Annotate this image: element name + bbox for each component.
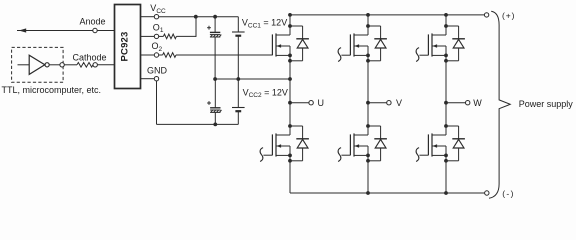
wire C2 column [214,79,216,108]
wire O1 to resistor [159,35,164,37]
junction dots Q2 [288,124,292,128]
wire B2 column [237,79,239,108]
svg-text:Cathode: Cathode [73,52,107,62]
wire gate drive to Q1 [176,54,272,56]
svg-text:PC923: PC923 [120,31,131,61]
node U terminal [309,101,313,105]
transistor Q6 [428,133,432,156]
junction column 2 bottom rail [366,191,370,195]
svg-text:Power supply: Power supply [519,99,574,109]
dashed box TTL driver [12,47,64,82]
junction VCC2-Q1 source [288,77,292,81]
diode D6 [446,126,465,161]
transistor Q1 [272,33,276,56]
junction column 3 bottom rail [444,191,448,195]
wire anode terminal to PC923 [97,30,114,32]
node cathode drive terminal [60,63,64,67]
battery VCC1 source [232,31,245,33]
svg-text:(+): (+) [502,10,515,20]
wire negative rail [290,192,485,194]
junction column 2 top rail [366,13,370,17]
node GND pin terminal [154,77,158,81]
node gate squiggle Q6 [416,148,419,162]
node gate squiggle Q4 [338,148,341,162]
inverter gate U2 [29,55,45,74]
wire bridge column 3 segments [445,15,447,35]
wire B1 column [237,17,239,32]
svg-text:V: V [396,98,402,108]
junction VCC-O1 [194,15,198,19]
junction column 1 top rail [288,13,292,17]
node anode terminal [93,28,97,32]
junction dots Q1 [288,24,292,28]
pin GND wire [141,78,155,80]
junction VCC-C1 [213,15,217,19]
node negative terminal [485,191,489,195]
wire VCC2 rail [215,78,290,80]
wire node W [446,102,466,104]
battery VCC2 source [232,107,245,109]
node positive terminal [484,13,488,17]
wire bridge column 2 segments [367,15,369,35]
pin O2 wire [141,54,155,56]
wire gate lead Q6 [419,154,428,156]
wire O2 to resistor [159,54,163,56]
svg-text:U: U [318,98,325,108]
wire cathode terminal to PC923 [97,64,114,66]
junction dots Q5 [444,24,448,28]
node VCC pin terminal [154,15,158,19]
wire to cathode resistor [64,64,77,66]
node gate squiggle Q5 [416,48,419,62]
wire input to inverter [18,64,30,66]
junction GND-C2 [213,123,217,127]
power supply brace [489,11,510,198]
node O2 pin terminal [154,53,158,57]
node gate squiggle Q3 [338,48,341,62]
node W terminal [466,101,470,105]
wire O1 resistor to VCC rail [176,35,196,37]
wire GND rail [157,123,239,125]
junction node V [366,101,370,105]
svg-text:W: W [473,98,482,108]
node V terminal [387,101,391,105]
node O1 pin terminal [154,34,158,38]
wire node V [368,102,387,104]
op-amp U1 PC923 photocoupler box [115,5,141,89]
transistor Q5 [428,33,432,56]
pin O1 wire [141,35,155,37]
junction column 3 top rail [444,13,448,17]
diode D4 [368,126,387,161]
junction dots Q3 [366,24,370,28]
wire VCC rail [159,16,239,18]
wire gate lead Q4 [341,154,350,156]
svg-text:GND: GND [147,66,168,76]
resistor R1 cathode series [77,63,93,68]
anode input wire with arrowhead [17,30,93,32]
wire bridge column 1 segments [289,15,291,35]
diode D3 [368,26,387,61]
capacitor C2 electrolytic [210,107,220,109]
node gate squiggle Q2 [260,148,263,162]
wire node U [290,102,309,104]
junction dots Q4 [366,124,370,128]
diode D2 [290,126,309,161]
wire gate lead Q5 [419,54,428,56]
junction node W [444,101,448,105]
diode D5 [446,26,465,61]
junction VCC2-B1 [236,77,240,81]
wire gate lead Q3 [341,54,350,56]
svg-text:TTL, microcomputer, etc.: TTL, microcomputer, etc. [2,85,102,95]
resistor R2 on O1 [163,34,176,39]
capacitor C1 electrolytic [210,31,220,33]
svg-text:(-): (-) [502,189,515,199]
wire positive rail [290,14,484,16]
wire gate lead Q2 [263,154,272,156]
transistor Q3 [350,33,354,56]
diode D1 [290,26,309,61]
resistor R3 gate drive [163,53,176,58]
junction VCC2-C2 [213,77,217,81]
wire GND drop [156,81,158,125]
pin VCC wire [141,16,155,18]
wire inverter output [49,64,60,66]
junction dots Q6 [444,124,448,128]
wire C1 column [214,17,216,33]
junction node U [288,101,292,105]
transistor Q2 [272,133,276,156]
transistor Q4 [350,133,354,156]
svg-text:Anode: Anode [80,17,106,27]
node cathode terminal [93,63,97,67]
